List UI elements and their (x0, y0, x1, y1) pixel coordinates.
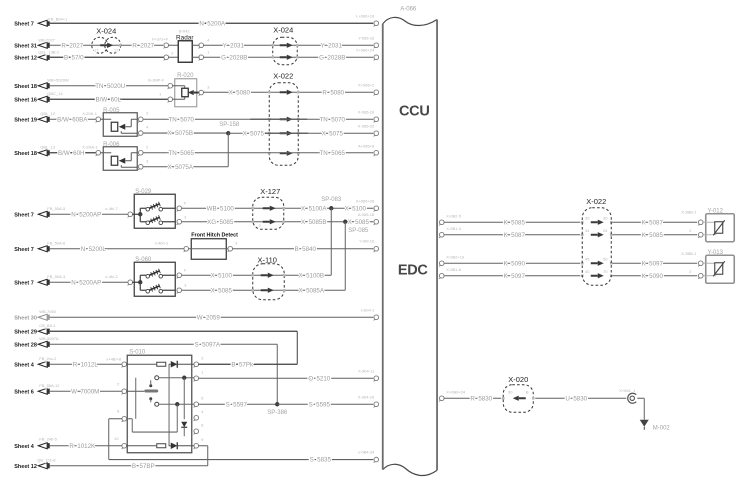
svg-text:X-0b4-11: X-0b4-11 (358, 368, 375, 373)
svg-text:L+066+16: L+066+16 (356, 13, 375, 18)
S-060 switch 1 wire (162, 274, 175, 276)
svg-text:SP-085: SP-085 (348, 228, 369, 234)
svg-text:X-3BB-1: X-3BB-1 (681, 251, 697, 256)
svg-text:B-JMP-F: B-JMP-F (148, 77, 164, 82)
pin R-020 in2 (168, 97, 173, 102)
S-029 switch 2 (146, 221, 150, 225)
junction SP-158 (226, 131, 230, 135)
svg-text:Y-066-16: Y-066-16 (358, 35, 375, 40)
svg-text:FB_24b-5: FB_24b-5 (39, 436, 57, 441)
pin CCU row TN5065 (374, 150, 379, 155)
pin S-060 in (128, 280, 133, 285)
svg-text:R 1012L: R 1012L (73, 361, 99, 368)
svg-text:M-002: M-002 (653, 425, 671, 431)
svg-text:N 5200AP: N 5200AP (71, 279, 101, 286)
svg-text:Y-0bf-16: Y-0bf-16 (359, 238, 375, 243)
svg-text:Y+066+24: Y+066+24 (356, 47, 375, 52)
svg-text:x-4b/-7: x-4b/-7 (105, 206, 118, 211)
pin radar 2 (164, 55, 169, 60)
svg-text:FB_B04+1: FB_B04+1 (48, 16, 68, 21)
svg-text:N 5200A: N 5200A (199, 20, 226, 27)
X-022 arrow row TN5070 (280, 118, 287, 120)
wire X 5075A (143, 166, 228, 168)
svg-text:X-0B1-6: X-0B1-6 (446, 267, 461, 272)
svg-text:WB-7050: WB-7050 (39, 309, 56, 314)
svg-text:X 5075A: X 5075A (168, 164, 194, 171)
wire X 5075 dark segment (264, 132, 308, 134)
svg-text:X-2NA-1: X-2NA-1 (82, 144, 98, 149)
riser SP-083 to X5100B (330, 208, 332, 275)
svg-text:FB_50A-6: FB_50A-6 (47, 240, 66, 245)
svg-text:FB_50A-5: FB_50A-5 (47, 206, 66, 211)
S-010 vertical row3 drop (176, 404, 178, 432)
X-022 right arrow row 3 (591, 262, 598, 264)
wire radar right stubs (192, 44, 199, 46)
S-010 row2 wire (159, 377, 195, 379)
X-022 right arrow row 4 (591, 275, 598, 277)
S-010 contact row2 (155, 376, 159, 380)
pin CCU row X5080 (374, 90, 379, 95)
svg-text:X-066-16: X-066-16 (358, 109, 375, 114)
svg-text:40: 40 (585, 269, 590, 274)
svg-text:Sheet 30: Sheet 30 (14, 315, 37, 321)
svg-text:x-bb4-1: x-bb4-1 (361, 307, 375, 312)
svg-text:B: B (526, 389, 529, 394)
pin R-020 out (199, 90, 204, 95)
svg-text:S 5097A: S 5097A (195, 341, 221, 348)
pin CCU row B (374, 43, 379, 48)
pin EDC ground row (439, 396, 444, 401)
S-060 switch 1 (146, 274, 150, 278)
pin CCU row C (374, 55, 379, 60)
pin Y-012 2 (698, 232, 703, 237)
svg-text:K 5097: K 5097 (642, 260, 664, 267)
svg-text:X 5085: X 5085 (348, 219, 370, 226)
svg-text:X-022: X-022 (586, 197, 606, 206)
svg-text:SP-386: SP-386 (267, 410, 288, 416)
svg-text:Sheet 7: Sheet 7 (14, 280, 34, 286)
wire TN 5020U (50, 85, 169, 87)
svg-text:TN 5065: TN 5065 (320, 150, 346, 157)
svg-text:U 5830: U 5830 (565, 395, 587, 402)
pin CCU row B5840 (374, 246, 379, 251)
X-024 mating arrow (100, 44, 107, 46)
svg-text:B-042: B-042 (179, 28, 190, 33)
pin FHD out (228, 246, 233, 251)
svg-text:TN 5070: TN 5070 (320, 116, 346, 123)
ring terminal X-661 (630, 396, 634, 400)
svg-text:X 5085B: X 5085B (301, 219, 326, 226)
wire TN 5065 (143, 152, 373, 154)
svg-text:FB_2xx-2: FB_2xx-2 (39, 356, 57, 361)
wire B/W 60L (50, 98, 169, 100)
pin S-060 out1 (177, 273, 182, 278)
svg-text:K 5090: K 5090 (504, 260, 526, 267)
svg-text:Sheet 19: Sheet 19 (14, 117, 37, 123)
pin S-010 out2 (194, 376, 199, 381)
connector X-024 (harness) (273, 37, 298, 65)
svg-text:Sheet 7: Sheet 7 (14, 212, 34, 218)
Y-012 solenoid (703, 221, 716, 223)
Y-013 solenoid (703, 262, 716, 264)
pin FHD in (184, 246, 189, 251)
svg-text:A+066+8: A+066+8 (358, 143, 375, 148)
svg-text:X+661 1: X+661 1 (619, 388, 636, 393)
X-022 arrow row X5080 (280, 91, 287, 93)
wire TN 5070 (143, 118, 373, 120)
wire K5085 left (444, 221, 580, 223)
S-010 row3 wire (159, 403, 195, 405)
wire B 5840 (232, 248, 373, 250)
wire WB 5100 (182, 207, 374, 209)
wire K5087 left (444, 234, 580, 236)
pin R-005 in (96, 117, 101, 122)
svg-text:Sheet 18: Sheet 18 (14, 84, 37, 90)
riser SP-085 to X5085A (344, 222, 346, 291)
FHD through wire (188, 248, 228, 250)
svg-text:QBC_14: QBC_14 (47, 91, 63, 96)
wire W 2059 (50, 316, 374, 318)
svg-text:WB-2027: WB-2027 (38, 37, 55, 42)
X-127 arrow row 5100 (263, 207, 270, 209)
svg-text:R 5830: R 5830 (470, 395, 492, 402)
wire K5087 right (612, 234, 697, 236)
svg-text:30: 30 (508, 389, 513, 394)
S-010 switch wiring (126, 390, 144, 392)
wire B/W 60BA (50, 118, 97, 120)
svg-text:R-020: R-020 (177, 73, 194, 79)
R-005 internals (103, 118, 111, 120)
S-029 switch 1 wire (162, 207, 175, 209)
svg-text:X-127: X-127 (260, 187, 280, 196)
connector X-020 (503, 385, 533, 413)
radar box (178, 41, 192, 63)
wire K5090 left (444, 262, 580, 264)
wire XG 5085 (182, 221, 374, 223)
svg-text:X-066-20: X-066-20 (358, 123, 375, 128)
pin S-010 out6 (194, 443, 199, 448)
S-010 row4 diode (171, 443, 178, 449)
junction SP-083 (329, 206, 333, 210)
wire B 57BP (50, 465, 208, 467)
pin EDC right row K5087 (439, 232, 444, 237)
svg-text:X+0B0+24: X+0B0+24 (446, 389, 466, 394)
svg-text:X+066+2: X+066+2 (358, 82, 375, 87)
X-127 arrow row 5085 (263, 221, 270, 223)
S-010 box (127, 355, 192, 453)
pin S-010 in3 (122, 416, 127, 421)
X-024b arrow row Y2031 (280, 44, 287, 46)
Y-013 box (706, 255, 735, 283)
svg-text:TN 5070: TN 5070 (169, 116, 195, 123)
pin Y-013 1 (698, 261, 703, 266)
svg-text:X 5100B: X 5100B (299, 272, 324, 279)
pin S-010 in2 (122, 389, 127, 394)
svg-text:X-022: X-022 (273, 71, 293, 80)
wire X 5085 (S-060) (182, 289, 346, 291)
svg-text:W 2059: W 2059 (197, 314, 221, 321)
X-022 top contact pads (268, 91, 271, 94)
X-024b contact pads (271, 44, 274, 47)
svg-text:W 7000M: W 7000M (71, 388, 99, 395)
X-022 arrow row X5075 (280, 132, 287, 134)
wire B 57BP riser (207, 460, 209, 466)
pin Y-012 1 (698, 220, 703, 225)
S-029 switch 2 wire (162, 221, 175, 223)
wire X 5075B (143, 132, 228, 134)
svg-text:12: 12 (114, 47, 119, 52)
wire S 5597 (198, 403, 277, 405)
svg-text:X-0B2+13: X-0B2+13 (446, 254, 465, 259)
svg-text:Sheet 12: Sheet 12 (14, 55, 37, 61)
svg-text:X-20K-1: X-20K-1 (82, 111, 97, 116)
svg-text:Sheet 16: Sheet 16 (14, 97, 37, 103)
pin EDC row W2059 (374, 315, 379, 320)
pin S-010 in4 (122, 443, 127, 448)
wire X 5100 (S-060) (182, 274, 332, 276)
svg-text:F+2/G+F: F+2/G+F (152, 36, 169, 41)
svg-text:24: 24 (603, 228, 608, 233)
R-020 box (175, 79, 197, 107)
svg-text:K 5087: K 5087 (504, 232, 526, 239)
wire radar pin1 stub (168, 44, 178, 46)
wire B 57Pk (198, 363, 297, 365)
S-010 contact row3 (155, 402, 159, 406)
svg-text:WB+5020W: WB+5020W (47, 77, 69, 82)
X-020 contact pads (502, 397, 505, 400)
front hitch detect box (191, 239, 226, 260)
svg-text:34: 34 (585, 228, 590, 233)
svg-text:WB-5097A: WB-5097A (39, 336, 59, 341)
svg-text:QEL_13B-1: QEL_13B-1 (38, 49, 60, 54)
pin EDC row S5835 (374, 457, 379, 462)
wire K5097 right (612, 275, 697, 277)
svg-text:X-024: X-024 (96, 26, 116, 35)
pin S-029 in (128, 212, 133, 217)
X-022 arrow row TN5065 (280, 152, 287, 154)
svg-text:45: 45 (585, 256, 590, 261)
wire O 5210 (198, 377, 373, 379)
wire K5097 left (444, 275, 580, 277)
wire N 5200AP (2) (50, 281, 129, 283)
X-110 arrow row 5100B (261, 274, 268, 276)
R-020 internal wiring (172, 85, 185, 87)
svg-text:17: 17 (94, 47, 99, 52)
R-020 element (182, 88, 189, 97)
svg-text:S 5835: S 5835 (310, 457, 332, 464)
pin S-010 out4 (194, 415, 199, 420)
connector X-110 (253, 264, 285, 300)
wire TN 5070 dark segment (250, 118, 307, 120)
pin S-010 out5 (194, 429, 199, 434)
wire R 1012L (50, 363, 123, 365)
svg-text:S 5597: S 5597 (226, 401, 248, 408)
wire W 7000M (50, 390, 123, 392)
S-060 internal split (132, 281, 140, 283)
svg-text:Sheet 18: Sheet 18 (14, 151, 37, 157)
svg-text:X 5085A: X 5085A (299, 287, 325, 294)
svg-text:QBL_13: QBL_13 (40, 144, 55, 149)
svg-text:Y 2031: Y 2031 (321, 42, 343, 49)
pin S-010 in1 (122, 362, 127, 367)
wire S 5097A (50, 343, 278, 345)
svg-text:A-066: A-066 (400, 6, 417, 12)
pin EDC right row K5085 (439, 220, 444, 225)
svg-text:SP-083: SP-083 (321, 197, 342, 203)
svg-text:35: 35 (585, 215, 590, 220)
S-010 row1 wiring (126, 363, 156, 365)
pin S-060 out2 (177, 288, 182, 293)
svg-text:B/W 60BA: B/W 60BA (57, 116, 88, 123)
svg-text:K 5087: K 5087 (642, 219, 664, 226)
svg-text:X 5100A: X 5100A (301, 205, 327, 212)
svg-text:x-4bh-1: x-4bh-1 (155, 240, 169, 245)
pin CCU row A (374, 21, 379, 26)
svg-text:Sheet 29: Sheet 29 (14, 329, 37, 335)
svg-text:70: 70 (603, 269, 608, 274)
svg-text:K 5090: K 5090 (642, 273, 664, 280)
junction SP-085 (343, 220, 347, 224)
pin CCU row X5085 (374, 219, 379, 224)
wire sheet29 riser (296, 331, 298, 364)
svg-text:X-0B1-4: X-0B1-4 (446, 226, 461, 231)
svg-text:Y 2031: Y 2031 (223, 42, 245, 49)
svg-text:50: 50 (603, 256, 608, 261)
svg-text:R 5080: R 5080 (322, 89, 344, 96)
wire X 5080 (203, 91, 373, 93)
S-029 box (134, 194, 175, 228)
svg-text:G 2028B: G 2028B (221, 54, 247, 61)
X-020 arrow (519, 397, 526, 399)
svg-text:CCU: CCU (399, 103, 430, 119)
svg-text:X-3BB-1: X-3BB-1 (681, 209, 697, 214)
S-029 switch 1 (146, 207, 150, 211)
wire X 5075 (228, 132, 373, 134)
pin R-005 out2 (138, 131, 143, 136)
svg-text:S 5595: S 5595 (309, 401, 331, 408)
wire sheet28 riser (276, 344, 278, 404)
svg-text:Sheet 4: Sheet 4 (14, 362, 35, 368)
wire Y 2031 (left) (203, 44, 373, 46)
svg-text:EDC: EDC (398, 262, 429, 278)
wire B 57/0 (50, 56, 167, 58)
svg-text:K 5097: K 5097 (504, 273, 526, 280)
Y-012 box (706, 214, 735, 242)
junction SP-386 (275, 402, 279, 406)
svg-text:Sheet 4: Sheet 4 (14, 444, 35, 450)
S-010 row4 resistor (157, 444, 166, 448)
R-006 internals (103, 152, 111, 154)
svg-text:K 5085: K 5085 (642, 232, 664, 239)
S-010 vertical bus 2 (183, 378, 185, 420)
pin R-006 in (96, 150, 101, 155)
svg-text:O 5210: O 5210 (308, 375, 331, 382)
svg-text:R 2027: R 2027 (132, 42, 154, 49)
svg-text:B 5840: B 5840 (295, 246, 317, 253)
wire B 5830 (1) (444, 397, 501, 399)
X-127 contact pads (251, 207, 254, 210)
svg-text:X 5075B: X 5075B (168, 130, 193, 137)
svg-text:CB_B0-1: CB_B0-1 (39, 323, 56, 328)
ground M-002 (640, 420, 649, 427)
S-010 zener (181, 422, 187, 428)
svg-text:X+066+26: X+066+26 (356, 198, 375, 203)
svg-text:X 5075: X 5075 (322, 130, 344, 137)
wire radar pin2 stub (168, 56, 178, 58)
S-060 switch 2 wire (162, 289, 175, 291)
pin EDC row O5210 (374, 376, 379, 381)
svg-text:x-0B4-34: x-0B4-34 (358, 450, 375, 455)
wire B/W 60H (50, 152, 97, 154)
svg-text:Sheet 28: Sheet 28 (14, 342, 37, 348)
pin S-010 out1 (194, 362, 199, 367)
svg-text:QB_101-8: QB_101-8 (37, 457, 56, 462)
wire K5090 right (612, 262, 697, 264)
pin radar out 1 (199, 43, 204, 48)
S-010 junction row3 (175, 402, 179, 406)
svg-text:R 2027: R 2027 (61, 42, 83, 49)
svg-text:Sheet 31: Sheet 31 (14, 43, 37, 49)
svg-text:WB 5100: WB 5100 (207, 205, 235, 212)
svg-text:N 5200L: N 5200L (81, 246, 107, 253)
pin radar out 2 (199, 55, 204, 60)
pin EDC right row K5090 (439, 261, 444, 266)
pin CCU row X5100 (374, 206, 379, 211)
svg-text:Front Hitch Detect: Front Hitch Detect (191, 232, 238, 238)
pin R-006 out1 (138, 150, 143, 155)
pin R-006 out2 (138, 164, 143, 169)
pin R-020 in1 (168, 83, 173, 88)
svg-text:B 57BP: B 57BP (132, 463, 155, 470)
svg-text:SP-158: SP-158 (219, 122, 240, 128)
svg-text:K 5085: K 5085 (504, 219, 526, 226)
wire R 1012K (50, 445, 123, 447)
wire N 5200A (50, 22, 374, 24)
wire R 2027 left (50, 44, 164, 46)
X-110 contact pads (251, 274, 254, 277)
svg-text:A-065-18: A-065-18 (358, 212, 375, 217)
wire S 5835 (208, 459, 374, 461)
pin CCU row TN5070 (374, 117, 379, 122)
svg-text:Sheet 7: Sheet 7 (14, 247, 34, 253)
svg-text:FB_50A-3: FB_50A-3 (47, 274, 66, 279)
R-006 box (103, 147, 137, 171)
R-005 box (103, 113, 137, 137)
connector X-127 (253, 197, 284, 229)
X-024 contact pad (118, 44, 121, 47)
svg-text:X-0B2-5: X-0B2-5 (446, 213, 461, 218)
svg-text:Sheet 7: Sheet 7 (14, 21, 34, 27)
S-029 internal split (132, 213, 140, 215)
S-060 box (134, 262, 175, 296)
svg-text:X 5080: X 5080 (229, 89, 251, 96)
S-010 in3 bracket (109, 418, 123, 420)
svg-text:x-4b/-2: x-4b/-2 (105, 274, 118, 279)
X-022 right contact pads (581, 221, 584, 224)
svg-text:X-024: X-024 (273, 25, 293, 34)
S-010 row4 wiring (126, 445, 156, 447)
svg-text:X 5075: X 5075 (243, 130, 265, 137)
connector X-022 right (582, 208, 611, 286)
svg-text:B/W 60H: B/W 60H (58, 150, 84, 157)
wire ground elbow (637, 397, 644, 399)
wire N 5200L (50, 248, 185, 250)
wire X5075 riser (227, 133, 229, 167)
wire S 5595 (277, 403, 373, 405)
control unit block A-066 (CCU/EDC) (383, 17, 437, 475)
svg-text:x+4B/+8: x+4B/+8 (106, 356, 122, 361)
svg-text:X-0b4-16: X-0b4-16 (358, 394, 375, 399)
